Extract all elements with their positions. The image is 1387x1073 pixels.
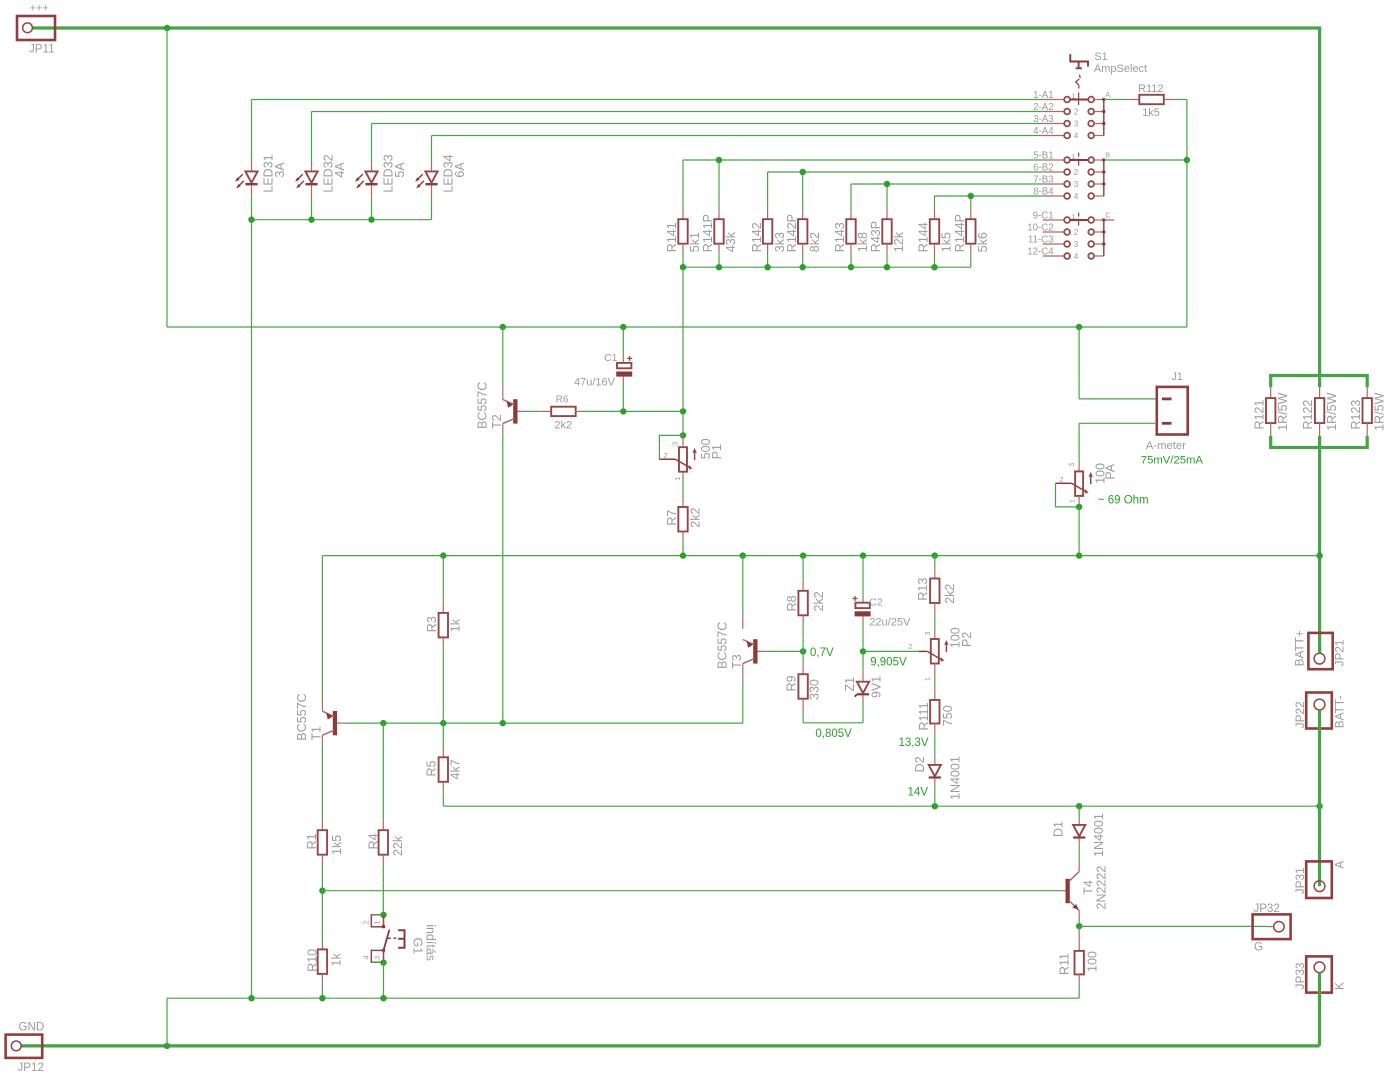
svg-text:R8: R8 bbox=[785, 595, 799, 611]
svg-text:1k5: 1k5 bbox=[940, 232, 954, 252]
svg-text:T4: T4 bbox=[1082, 880, 1096, 895]
svg-text:R141P: R141P bbox=[701, 214, 715, 252]
svg-text:R144P: R144P bbox=[953, 214, 967, 252]
svg-text:2: 2 bbox=[1074, 108, 1079, 117]
svg-text:12-C4: 12-C4 bbox=[1027, 246, 1054, 257]
svg-text:1k: 1k bbox=[449, 618, 463, 632]
svg-text:750: 750 bbox=[941, 705, 955, 726]
svg-text:3: 3 bbox=[1067, 463, 1076, 467]
svg-text:R11: R11 bbox=[1058, 953, 1072, 975]
svg-text:BC557C: BC557C bbox=[295, 693, 309, 740]
svg-text:R111: R111 bbox=[917, 702, 931, 730]
svg-text:330: 330 bbox=[808, 679, 822, 700]
svg-text:1k5: 1k5 bbox=[1142, 107, 1160, 119]
svg-text:JP21: JP21 bbox=[1333, 640, 1347, 667]
svg-text:K: K bbox=[1333, 982, 1347, 990]
svg-text:4: 4 bbox=[361, 955, 370, 959]
svg-text:R43P: R43P bbox=[869, 221, 883, 252]
svg-text:1N4001: 1N4001 bbox=[948, 756, 962, 800]
svg-text:C: C bbox=[1105, 211, 1111, 220]
svg-text:4A: 4A bbox=[333, 162, 347, 178]
svg-text:JP12: JP12 bbox=[18, 1061, 44, 1073]
svg-text:1: 1 bbox=[1068, 499, 1077, 503]
svg-text:2: 2 bbox=[1059, 475, 1063, 484]
svg-text:14V: 14V bbox=[908, 787, 929, 799]
svg-text:R143: R143 bbox=[833, 222, 847, 252]
svg-text:3: 3 bbox=[670, 442, 679, 446]
svg-text:1-A1: 1-A1 bbox=[1033, 90, 1053, 101]
svg-text:5k1: 5k1 bbox=[688, 232, 702, 252]
svg-text:JP33: JP33 bbox=[1293, 962, 1307, 989]
svg-text:G1: G1 bbox=[410, 938, 424, 955]
svg-text:BATT-: BATT- bbox=[1333, 696, 1347, 729]
svg-text:R123: R123 bbox=[1349, 400, 1363, 430]
svg-text:A: A bbox=[1333, 861, 1347, 869]
svg-text:PA: PA bbox=[1103, 463, 1117, 479]
svg-text:6A: 6A bbox=[453, 162, 467, 178]
svg-text:47u/16V: 47u/16V bbox=[574, 376, 616, 388]
svg-text:75mV/25mA: 75mV/25mA bbox=[1141, 454, 1204, 466]
svg-text:11-C3: 11-C3 bbox=[1028, 234, 1054, 245]
svg-text:GND: GND bbox=[19, 1021, 45, 1034]
svg-text:D2: D2 bbox=[913, 756, 927, 772]
svg-text:P2: P2 bbox=[960, 632, 974, 647]
svg-text:3: 3 bbox=[1074, 240, 1079, 249]
svg-text:R5: R5 bbox=[425, 760, 439, 776]
svg-text:indítás: indítás bbox=[424, 924, 438, 961]
svg-text:1R/5W: 1R/5W bbox=[1325, 392, 1339, 430]
svg-text:2k2: 2k2 bbox=[943, 584, 957, 604]
svg-text:T3: T3 bbox=[730, 654, 744, 669]
svg-text:9V1: 9V1 bbox=[870, 676, 884, 698]
svg-text:1k: 1k bbox=[329, 953, 343, 967]
svg-text:R112: R112 bbox=[1138, 83, 1163, 95]
svg-text:+++: +++ bbox=[30, 2, 49, 14]
svg-text:R122: R122 bbox=[1301, 400, 1315, 430]
svg-text:5A: 5A bbox=[393, 162, 407, 178]
svg-text:13,3V: 13,3V bbox=[898, 737, 928, 749]
svg-text:1: 1 bbox=[1071, 92, 1075, 101]
svg-text:1: 1 bbox=[1071, 212, 1075, 221]
svg-text:BC557C: BC557C bbox=[475, 382, 489, 429]
svg-text:4: 4 bbox=[1074, 192, 1079, 201]
svg-text:2: 2 bbox=[1074, 228, 1079, 237]
svg-text:1R/5W: 1R/5W bbox=[1373, 392, 1387, 430]
svg-text:9,905V: 9,905V bbox=[870, 656, 907, 668]
svg-text:R142: R142 bbox=[750, 222, 764, 252]
svg-text:R4: R4 bbox=[367, 833, 381, 849]
svg-text:2: 2 bbox=[1074, 168, 1079, 177]
svg-text:R141: R141 bbox=[665, 222, 679, 252]
svg-text:100: 100 bbox=[1086, 951, 1100, 972]
svg-text:1: 1 bbox=[673, 476, 682, 480]
svg-text:T1: T1 bbox=[310, 726, 324, 741]
svg-text:JP31: JP31 bbox=[1293, 867, 1307, 894]
svg-text:JP11: JP11 bbox=[29, 42, 55, 55]
svg-text:3: 3 bbox=[1074, 120, 1079, 129]
svg-text:9-C1: 9-C1 bbox=[1033, 210, 1054, 221]
svg-text:22k: 22k bbox=[391, 835, 405, 856]
svg-text:A-meter: A-meter bbox=[1146, 440, 1186, 452]
svg-text:~ 69 Ohm: ~ 69 Ohm bbox=[1098, 494, 1149, 506]
svg-text:D1: D1 bbox=[1052, 821, 1066, 837]
svg-text:BATT+: BATT+ bbox=[1293, 630, 1307, 666]
svg-text:R3: R3 bbox=[425, 616, 439, 632]
svg-text:8k2: 8k2 bbox=[808, 232, 822, 252]
svg-text:R13: R13 bbox=[916, 578, 930, 601]
svg-text:JP32: JP32 bbox=[1253, 902, 1279, 915]
svg-text:R1: R1 bbox=[305, 833, 319, 849]
svg-text:1k8: 1k8 bbox=[856, 232, 870, 252]
svg-text:2: 2 bbox=[908, 642, 912, 651]
svg-text:1: 1 bbox=[373, 921, 382, 925]
svg-text:4-A4: 4-A4 bbox=[1033, 126, 1054, 137]
svg-text:BC557C: BC557C bbox=[715, 622, 729, 669]
svg-text:J1: J1 bbox=[1172, 371, 1183, 383]
svg-text:R6: R6 bbox=[556, 395, 569, 406]
svg-text:43k: 43k bbox=[724, 231, 738, 252]
svg-text:0,7V: 0,7V bbox=[810, 647, 834, 659]
svg-text:2N2222: 2N2222 bbox=[1095, 866, 1109, 910]
svg-text:R10: R10 bbox=[306, 949, 320, 972]
svg-text:10-C2: 10-C2 bbox=[1027, 222, 1053, 233]
svg-text:JP22: JP22 bbox=[1293, 701, 1307, 728]
svg-text:1R/5W: 1R/5W bbox=[1276, 392, 1290, 430]
svg-text:4: 4 bbox=[1074, 252, 1079, 261]
svg-text:B: B bbox=[1105, 151, 1110, 160]
svg-text:1k5: 1k5 bbox=[330, 835, 344, 855]
svg-text:R9: R9 bbox=[784, 675, 798, 691]
svg-text:P1: P1 bbox=[710, 444, 724, 459]
svg-text:2: 2 bbox=[663, 451, 667, 460]
svg-text:2k2: 2k2 bbox=[554, 420, 572, 432]
svg-text:A: A bbox=[1105, 90, 1110, 99]
svg-text:1N4001: 1N4001 bbox=[1092, 813, 1106, 857]
svg-text:AmpSelect: AmpSelect bbox=[1094, 63, 1147, 75]
svg-text:2-A2: 2-A2 bbox=[1033, 102, 1053, 113]
svg-text:C2: C2 bbox=[869, 596, 883, 608]
svg-text:4: 4 bbox=[1074, 132, 1079, 141]
svg-text:3: 3 bbox=[1074, 180, 1079, 189]
svg-text:S1: S1 bbox=[1094, 51, 1107, 63]
svg-text:2k2: 2k2 bbox=[688, 507, 702, 527]
svg-text:R142P: R142P bbox=[785, 214, 799, 252]
svg-text:C1: C1 bbox=[604, 352, 618, 364]
svg-text:1: 1 bbox=[923, 677, 932, 681]
svg-text:3: 3 bbox=[923, 632, 932, 636]
svg-text:G: G bbox=[1254, 940, 1263, 953]
svg-text:5k6: 5k6 bbox=[976, 232, 990, 252]
svg-text:0,805V: 0,805V bbox=[815, 728, 852, 740]
svg-text:12k: 12k bbox=[892, 231, 906, 252]
svg-text:R121: R121 bbox=[1252, 400, 1266, 430]
svg-text:T2: T2 bbox=[490, 414, 504, 429]
svg-text:3A: 3A bbox=[273, 162, 287, 178]
svg-text:3: 3 bbox=[373, 956, 382, 960]
svg-text:22u/25V: 22u/25V bbox=[869, 616, 911, 628]
svg-text:Z1: Z1 bbox=[843, 677, 857, 692]
svg-text:4k7: 4k7 bbox=[449, 759, 463, 779]
svg-text:1: 1 bbox=[1071, 152, 1075, 161]
svg-text:R7: R7 bbox=[665, 510, 679, 526]
svg-text:2k2: 2k2 bbox=[812, 591, 826, 611]
svg-text:3-A3: 3-A3 bbox=[1033, 114, 1053, 125]
svg-text:R144: R144 bbox=[917, 222, 931, 252]
svg-text:2: 2 bbox=[361, 920, 370, 924]
